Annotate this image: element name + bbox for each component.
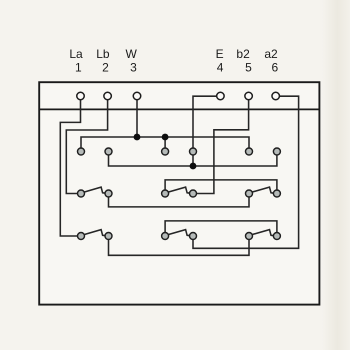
svg-text:2: 2: [102, 61, 109, 75]
svg-text:4: 4: [217, 61, 224, 75]
svg-text:La: La: [69, 47, 83, 61]
svg-text:W: W: [126, 47, 138, 61]
svg-text:6: 6: [272, 61, 279, 75]
svg-text:E: E: [216, 47, 224, 61]
svg-text:1: 1: [75, 61, 82, 75]
svg-text:5: 5: [245, 61, 252, 75]
svg-text:b2: b2: [236, 47, 250, 61]
svg-text:Lb: Lb: [96, 47, 110, 61]
svg-text:3: 3: [130, 61, 137, 75]
svg-text:a2: a2: [264, 47, 278, 61]
